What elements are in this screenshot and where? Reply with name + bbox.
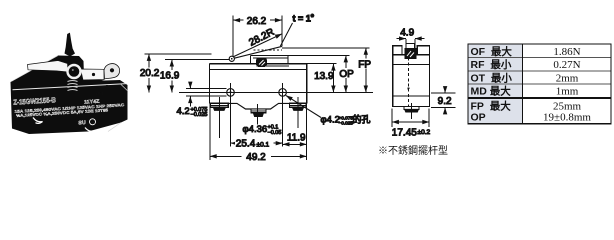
dimension 13.9 — [307, 64, 337, 93]
FP reference line — [282, 47, 370, 49]
svg-text:OP: OP — [471, 112, 486, 124]
terminal screw right — [290, 97, 307, 128]
mounting hole right — [279, 83, 287, 147]
side view case — [393, 55, 430, 107]
svg-text:16.9: 16.9 — [160, 71, 180, 82]
dimension 28.2R leader — [233, 27, 282, 57]
side view lever bracket ears — [393, 46, 430, 55]
switch photo top edge highlight — [11, 56, 127, 91]
label phi4.36 — [243, 124, 282, 136]
svg-text:SU: SU — [78, 120, 86, 126]
switch photo lever — [28, 61, 120, 81]
switch photo bottom screws — [33, 118, 93, 133]
switch photo hinge pin — [65, 33, 76, 57]
spec table — [468, 44, 611, 124]
hole center line — [179, 91, 373, 93]
svg-text:±0.1: ±0.1 — [257, 141, 270, 148]
switch photo spring — [68, 81, 78, 91]
svg-text:4.9: 4.9 — [400, 28, 414, 39]
svg-text:1.86N: 1.86N — [553, 46, 580, 58]
svg-text:φ4.2: φ4.2 — [321, 115, 340, 126]
svg-text:19±0.8mm: 19±0.8mm — [543, 112, 591, 124]
svg-text:4.2: 4.2 — [177, 106, 190, 117]
svg-text:49.2: 49.2 — [246, 152, 266, 163]
side view center line — [407, 58, 409, 107]
roller free position (dashed) — [254, 49, 283, 51]
switch photo body — [11, 56, 128, 135]
svg-text:13.9: 13.9 — [314, 71, 334, 82]
side view roller — [405, 49, 416, 59]
svg-text:±0.2: ±0.2 — [418, 129, 431, 136]
svg-text:SA: SA — [90, 120, 95, 124]
table row FP — [471, 100, 582, 113]
label phi4.2 +0.075 -0.025 hole — [321, 114, 371, 126]
svg-text:20.2: 20.2 — [140, 68, 160, 79]
side hole center dot — [407, 87, 409, 89]
svg-text:11.9: 11.9 — [287, 132, 306, 143]
svg-text:FP: FP — [358, 59, 371, 70]
svg-text:MD 最大: MD 最大 — [471, 85, 512, 98]
svg-text:OF 最大: OF 最大 — [471, 45, 513, 58]
switch photo certification marks — [78, 119, 121, 132]
dimension 20.2 — [140, 54, 212, 92]
svg-text:FP 最大: FP 最大 — [471, 100, 512, 113]
label t=1 — [280, 13, 314, 46]
side view lever cross-section — [406, 44, 415, 49]
lever pivot — [229, 56, 234, 61]
dimension 11.9 — [283, 132, 307, 144]
svg-text:OP: OP — [339, 69, 354, 80]
dimension 9.2 — [431, 87, 456, 115]
svg-text:OT 最小: OT 最小 — [471, 71, 513, 84]
actuator plate on body top — [251, 56, 289, 66]
dimension FP — [358, 48, 372, 93]
label 4.2 +0.075 -0.025 — [177, 106, 208, 118]
dimension 4.9 — [397, 28, 425, 46]
dimension 49.2 — [210, 105, 307, 163]
svg-text:25.4: 25.4 — [236, 139, 256, 150]
mounting hole left — [227, 83, 235, 147]
svg-text:−0.05: −0.05 — [268, 130, 282, 136]
svg-text:t = 1*: t = 1* — [293, 13, 315, 24]
dimension 16.9 — [160, 60, 229, 93]
OP reference line — [251, 55, 350, 57]
svg-text:AMJ5: AMJ5 — [95, 91, 104, 96]
svg-text:的孔: 的孔 — [353, 114, 371, 125]
dimension 17.45 — [392, 109, 431, 139]
svg-text:RF 最小: RF 最小 — [471, 58, 512, 71]
switch body front view — [210, 64, 307, 109]
table row MD — [471, 85, 579, 98]
table row OP — [471, 112, 592, 124]
svg-text:※不銹鋼擺杆型: ※不銹鋼擺杆型 — [378, 144, 448, 157]
switch photo label text — [13, 84, 125, 119]
dimension OP — [339, 56, 354, 93]
svg-text:−0.025: −0.025 — [339, 121, 354, 126]
note stainless steel lever type — [378, 144, 448, 157]
dimension 26.2 — [233, 16, 282, 57]
svg-text:26.2: 26.2 — [247, 16, 267, 27]
svg-text:9.2: 9.2 — [438, 96, 452, 107]
leader hole 4.2 right — [286, 95, 321, 117]
roller (solid) — [257, 58, 266, 66]
svg-text:φ4.36: φ4.36 — [243, 124, 268, 135]
side view terminal screw — [404, 103, 419, 119]
table row OT — [471, 71, 579, 84]
dimension 25.4 — [231, 139, 283, 150]
dimension 4.2 hole tangents — [186, 83, 227, 107]
lever arm — [232, 46, 282, 58]
terminal screw middle — [251, 104, 266, 125]
svg-text:−0.025: −0.025 — [191, 112, 208, 118]
svg-text:0.27N: 0.27N — [553, 59, 580, 71]
table row RF — [471, 58, 581, 71]
svg-text:1mm: 1mm — [556, 86, 579, 98]
table row OF — [471, 45, 581, 58]
svg-text:2mm: 2mm — [556, 72, 579, 84]
svg-text:17.45: 17.45 — [392, 128, 417, 139]
terminal screw left — [210, 97, 228, 138]
